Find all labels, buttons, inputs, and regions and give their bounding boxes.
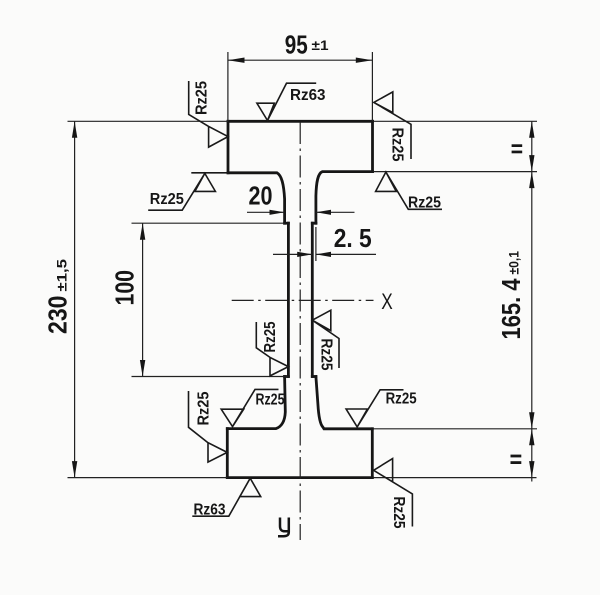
svg-text:Rz25: Rz25 <box>386 391 417 408</box>
svg-text:±1,5: ±1,5 <box>54 259 70 292</box>
dim 20 line right <box>316 211 355 213</box>
roughness Rz25 web-left symbol <box>256 322 288 376</box>
dim 95 line <box>228 59 373 61</box>
arrow 2.5 right <box>316 252 331 257</box>
web upper-right step <box>312 222 316 225</box>
svg-text:X: X <box>381 289 393 314</box>
vertical centerline y axis <box>299 122 301 540</box>
svg-text:2. 5: 2. 5 <box>334 223 372 253</box>
dim 20 line left <box>247 211 285 213</box>
svg-text:Rz25: Rz25 <box>408 194 441 211</box>
svg-text:Rz25: Rz25 <box>390 497 407 529</box>
svg-text:20: 20 <box>249 181 273 211</box>
svg-text:Rz25: Rz25 <box>262 321 279 352</box>
dim 100 line <box>142 223 144 376</box>
dim 230 ext line top <box>68 120 229 122</box>
top flange bottom-left edge + fillet wire <box>228 173 285 223</box>
roughness Rz25 top-right symbol <box>374 92 411 159</box>
right ext line flange inner top <box>374 171 537 173</box>
axis label y <box>278 518 289 537</box>
arrow 230 bottom <box>72 461 77 478</box>
roughness Rz25 mid-right symbol (under top flange) <box>376 172 442 209</box>
arrow right dim top up <box>529 121 534 138</box>
web lower-left edge + fillet wire <box>227 377 285 429</box>
svg-text:Rz25: Rz25 <box>194 81 211 115</box>
dim 100 ext line bottom <box>132 376 289 378</box>
horizontal centerline X axis <box>232 299 374 301</box>
bottom flange right edge wire <box>371 429 374 478</box>
roughness Rz25 mid-left symbol (under top flange) <box>148 173 228 210</box>
bottom flange left edge wire <box>226 429 229 478</box>
arrow 100 bottom <box>140 360 145 377</box>
roughness Rz25 bottom-right lower symbol <box>374 459 413 527</box>
right ext line flange inner bottom <box>374 428 538 430</box>
svg-text:Rz25: Rz25 <box>256 392 285 409</box>
roughness Rz63 top flange symbol <box>257 83 316 120</box>
svg-text:230: 230 <box>43 296 73 335</box>
bottom flange bottom edge wire <box>227 476 372 479</box>
dim 95 ext line right <box>371 52 373 121</box>
dim 2.5 line right <box>316 253 376 255</box>
right dim line <box>531 121 533 481</box>
web lower-left step <box>285 375 289 378</box>
svg-text:Rz63: Rz63 <box>194 502 226 519</box>
arrow 2.5 left <box>297 252 312 257</box>
svg-text:100: 100 <box>110 270 140 306</box>
dim 2.5 line left <box>273 253 312 255</box>
dim 2.5 ext line <box>315 227 317 261</box>
arrow 230 top <box>72 121 77 138</box>
svg-text:Rz63: Rz63 <box>290 87 326 104</box>
svg-text:±0,1: ±0,1 <box>506 251 522 275</box>
top flange left edge wire <box>227 121 230 173</box>
svg-text:Rz25: Rz25 <box>389 128 406 162</box>
roughness Rz25 bottom-right upper symbol <box>346 390 403 427</box>
roughness Rz25 bottom-left upper symbol <box>221 389 278 426</box>
dim 230 line <box>74 121 76 477</box>
dim 95 ext line left <box>227 52 229 121</box>
roughness Rz25 bottom-left lower symbol <box>189 391 228 462</box>
svg-text:95: 95 <box>285 30 308 60</box>
dim 230 ext line bottom <box>68 477 228 479</box>
arrow right dim 171 up <box>529 172 534 189</box>
svg-text:Rz25: Rz25 <box>196 391 213 425</box>
top flange top edge wire <box>228 120 373 123</box>
dim 100 ext line top <box>132 222 285 224</box>
web upper-left step <box>285 222 289 225</box>
arrow 95 left <box>228 58 245 63</box>
roughness Rz25 top-left symbol <box>189 81 228 147</box>
arrow 20 right <box>316 210 331 215</box>
svg-text:165. 4: 165. 4 <box>496 278 526 339</box>
svg-text:Rz25: Rz25 <box>318 339 335 371</box>
arrow 100 top <box>140 223 145 240</box>
right ext line flange bottom <box>374 477 537 479</box>
svg-text:±1: ±1 <box>312 38 330 53</box>
equal sign top <box>512 144 523 153</box>
web narrow left edge wire <box>287 223 290 376</box>
arrow 95 right <box>356 58 373 63</box>
arrow right dim 429 down <box>529 412 534 429</box>
web lower-right edge + fillet wire <box>316 377 372 429</box>
equal sign bottom <box>511 455 522 464</box>
web lower-right step <box>312 375 316 378</box>
top flange bottom-right edge + fillet wire <box>316 172 373 224</box>
top flange right edge wire <box>371 121 374 171</box>
arrow right dim bottom down <box>529 461 534 478</box>
roughness Rz63 bottom symbol <box>192 478 260 516</box>
svg-text:Rz25: Rz25 <box>150 191 184 208</box>
arrow 20 left <box>270 210 285 215</box>
web narrow right edge wire <box>311 223 314 376</box>
arrow right dim 429 up <box>529 429 534 446</box>
right ext line flange top <box>374 120 537 122</box>
roughness Rz25 web-right symbol <box>312 310 339 368</box>
arrow right dim 171 down <box>529 155 534 172</box>
